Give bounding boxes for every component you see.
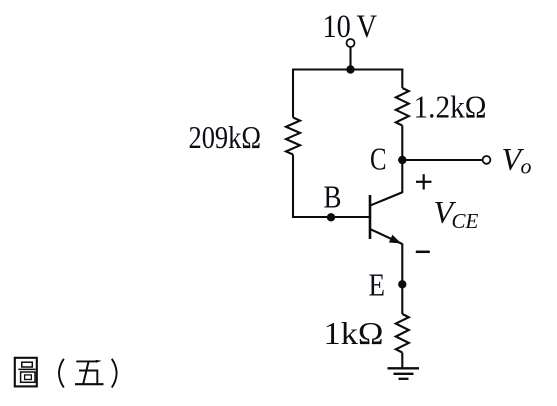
label Vo	[502, 141, 532, 179]
label VCE	[434, 194, 479, 233]
minus sign	[416, 251, 430, 254]
caption glyph tu inner core	[25, 375, 32, 380]
caption open paren	[59, 359, 64, 388]
wire collector	[401, 126, 403, 193]
caption glyph tu inner mouth	[22, 362, 33, 367]
resistor R2 1.2k	[396, 88, 409, 126]
svg-text:1.2kΩ: 1.2kΩ	[414, 89, 487, 125]
supply terminal 10V	[347, 39, 355, 47]
wire emitter	[401, 244, 403, 315]
resistor R1 209k	[286, 118, 300, 155]
transistor Q1 emitter arrow	[389, 235, 401, 244]
svg-text:CE: CE	[452, 209, 479, 233]
caption glyph tu outer box	[15, 358, 37, 387]
transistor Q1 collector lead	[370, 192, 404, 206]
svg-text:209kΩ: 209kΩ	[189, 119, 262, 155]
wire base	[292, 216, 370, 218]
node supply junction	[346, 65, 354, 73]
plus sign	[416, 174, 432, 189]
svg-text:1kΩ: 1kΩ	[324, 315, 384, 351]
resistor R3 1k	[396, 314, 409, 353]
transistor Q1 emitter lead	[370, 229, 403, 244]
wire to ground	[401, 353, 403, 369]
wire right branch upper	[401, 69, 403, 89]
transistor Q1 base bar	[369, 195, 372, 239]
node B	[327, 213, 335, 221]
svg-text:o: o	[521, 154, 532, 179]
wire top rail	[292, 68, 403, 70]
wire output	[402, 159, 482, 161]
caption glyph tu middle bar	[18, 368, 35, 370]
svg-text:10 V: 10 V	[323, 9, 378, 45]
wire left branch upper	[292, 70, 294, 118]
caption glyph tu lower box	[21, 372, 35, 382]
caption glyph five middle-right stroke	[79, 371, 97, 385]
caption glyph five left stroke	[83, 361, 89, 384]
svg-text:B: B	[324, 179, 342, 215]
wire supply terminal to top rail	[349, 47, 351, 69]
caption figure (five)	[15, 358, 117, 388]
svg-text:C: C	[370, 141, 387, 177]
ground	[388, 368, 420, 379]
node E	[398, 280, 406, 288]
svg-text:E: E	[369, 267, 386, 303]
terminal Vo	[483, 156, 491, 164]
wire left branch lower	[292, 155, 294, 219]
caption glyph five top stroke	[76, 360, 97, 362]
caption glyph five bottom stroke	[75, 383, 104, 385]
node C	[398, 156, 406, 164]
caption close paren	[112, 359, 117, 388]
